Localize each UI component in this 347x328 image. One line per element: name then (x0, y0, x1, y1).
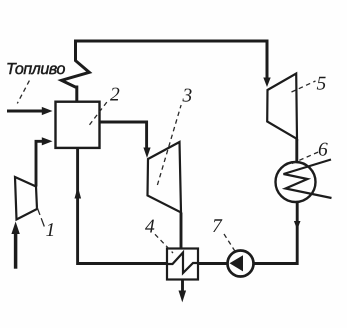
svg-text:2: 2 (110, 85, 120, 106)
svg-text:4: 4 (145, 217, 155, 238)
svg-text:6: 6 (318, 140, 328, 161)
svg-text:1: 1 (46, 220, 56, 241)
svg-text:Топливо: Топливо (6, 61, 65, 78)
svg-text:7: 7 (212, 216, 223, 237)
svg-text:5: 5 (317, 74, 327, 95)
svg-text:3: 3 (182, 86, 193, 107)
